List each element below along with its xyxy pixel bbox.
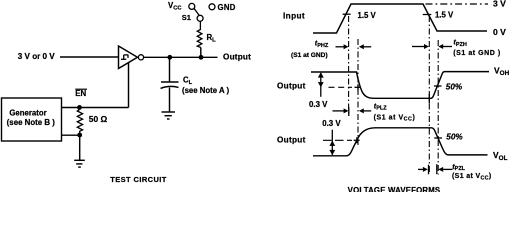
svg-text:0.3 V: 0.3 V: [309, 100, 328, 109]
wire EN up to inverter: [128, 63, 130, 108]
tick 50 percent row2 right: [434, 85, 442, 87]
arrow tPHZ right: [359, 44, 371, 49]
label S1 at GND right: [453, 50, 500, 57]
svg-text:50%: 50%: [446, 83, 463, 92]
switch Vcc throw contact: [189, 3, 195, 9]
power Vcc label: [168, 1, 182, 12]
title VOLTAGE WAVEFORMS: [348, 186, 441, 195]
capacitor CL label: [183, 75, 193, 86]
label 50 percent row2: [446, 83, 463, 92]
svg-text:0 V: 0 V: [493, 27, 506, 37]
label 1.5V falling: [435, 10, 454, 19]
label tPZH: [453, 38, 466, 48]
op-amp U1 (schmitt inverter triangle): [119, 46, 138, 69]
hysteresis symbol inside inverter: [121, 55, 128, 59]
node junction dot CL: [167, 55, 172, 60]
wire generator top output: [62, 107, 129, 109]
svg-text:Output: Output: [223, 53, 251, 62]
arrow tPZL right: [437, 164, 453, 174]
svg-text:50 Ω: 50 Ω: [89, 114, 108, 124]
inverter output bubble: [138, 55, 143, 60]
node junction dot RL: [199, 55, 204, 60]
node Input label: [283, 11, 305, 20]
waveform input: [313, 4, 487, 33]
waveform output high-to-Z: [311, 72, 489, 99]
node junction dot 50ohm bottom: [77, 133, 82, 138]
node input label "3 V or 0 V": [18, 52, 55, 61]
svg-text:GND: GND: [218, 3, 236, 12]
wire input to inverter: [60, 56, 119, 58]
tick 50 percent row3 right: [434, 137, 442, 139]
wire CL branch down: [169, 57, 171, 81]
svg-text:(see Note B ): (see Note B ): [7, 118, 56, 127]
node VOL label: [493, 150, 508, 162]
3V reference dash-dot line: [426, 3, 489, 5]
tick 1.5V on rising edge: [343, 13, 351, 15]
vertical dash-dot line L2 output crossing left: [357, 39, 359, 145]
node VOH label: [494, 65, 510, 77]
label S1 at GND left: [291, 52, 328, 59]
arrow 0.3V row2: [318, 72, 324, 97]
wire to ground: [79, 135, 81, 160]
tick cross row2 left: [355, 84, 361, 90]
svg-text:3 V or 0 V: 3 V or 0 V: [18, 52, 55, 61]
label 0.3V row3: [322, 119, 341, 128]
arrow tPZH left: [412, 44, 429, 49]
vertical dash-dot line R1 input fall crossing: [428, 16, 430, 175]
resistor RL: [197, 21, 202, 47]
label tPZL: [452, 162, 465, 172]
label S1 at Vcc right: [452, 173, 492, 181]
vertical dash-dot line L1 input rise crossing: [348, 16, 350, 116]
switch S1 blade to Vcc: [194, 9, 199, 16]
svg-text:(see Note A ): (see Note A ): [182, 86, 229, 95]
ground GND label: [218, 3, 236, 12]
arrow tPLZ left: [333, 107, 349, 116]
label S1 at Vcc left: [374, 114, 416, 122]
wire CL to ground: [169, 88, 171, 112]
resistor 50 ohm: [77, 110, 82, 133]
generator label: [7, 108, 56, 126]
label 0.3V row2: [309, 100, 328, 109]
svg-text:(S1 at GND): (S1 at GND): [291, 52, 328, 59]
tick 1.5V on falling edge: [423, 14, 432, 16]
waveform output low-to-Z: [313, 128, 488, 156]
node Output label row2: [277, 82, 306, 91]
node Output label row3: [277, 136, 306, 145]
arrow tPHZ left: [336, 44, 349, 49]
arrow tPLZ right: [359, 108, 371, 113]
svg-text:Output: Output: [277, 136, 306, 145]
tick cross row3 left: [354, 137, 360, 143]
node EN label: [75, 89, 87, 98]
svg-text:0.3 V: 0.3 V: [322, 119, 341, 128]
switch S1 label: [182, 13, 191, 22]
svg-text:S1: S1: [182, 13, 191, 22]
svg-text:(S1 at GND ): (S1 at GND ): [453, 50, 500, 57]
resistor RL label: [207, 33, 217, 44]
label 50 percent row3: [446, 133, 463, 142]
arrow tPZH right: [438, 44, 452, 49]
node 3V label: [493, 0, 506, 9]
svg-text:1.5 V: 1.5 V: [435, 10, 454, 19]
node 0V label: [493, 27, 506, 37]
vertical dash-dot line R2 output crossing right: [437, 40, 439, 175]
wire generator bottom output: [62, 134, 80, 136]
ground under generator: [74, 160, 85, 167]
wire output line: [144, 56, 218, 58]
dash-dot level VOH-0.3V: [329, 86, 353, 88]
switch S1 pole contact: [197, 15, 203, 21]
svg-text:EN: EN: [75, 89, 86, 98]
svg-text:50%: 50%: [446, 133, 463, 142]
svg-text:Output: Output: [277, 82, 306, 91]
svg-text:VOLTAGE WAVEFORMS: VOLTAGE WAVEFORMS: [348, 186, 441, 192]
switch GND throw contact: [209, 4, 215, 10]
svg-text:TEST CIRCUIT: TEST CIRCUIT: [110, 175, 166, 184]
wire RL branch up: [200, 48, 202, 58]
generator box: [2, 98, 62, 141]
title TEST CIRCUIT: [110, 175, 166, 184]
node junction dot 50ohm top: [77, 105, 82, 110]
svg-text:1.5 V: 1.5 V: [358, 11, 377, 20]
resistor 50 ohm label: [89, 114, 108, 124]
label tPHZ: [315, 39, 329, 49]
ground under CL: [162, 112, 176, 119]
label tPLZ: [374, 101, 387, 111]
label 1.5V rising: [358, 11, 377, 20]
capacitor CL: [161, 82, 179, 88]
arrow 0.3V row3: [329, 130, 335, 156]
svg-text:3 V: 3 V: [493, 0, 506, 9]
dash-dot level VOL+0.3V: [323, 139, 352, 141]
svg-text:Input: Input: [283, 11, 305, 20]
svg-text:Generator: Generator: [9, 108, 46, 117]
arrow tPZL left: [418, 165, 429, 175]
node Output label: [223, 53, 251, 62]
capacitor note label: [182, 86, 229, 95]
